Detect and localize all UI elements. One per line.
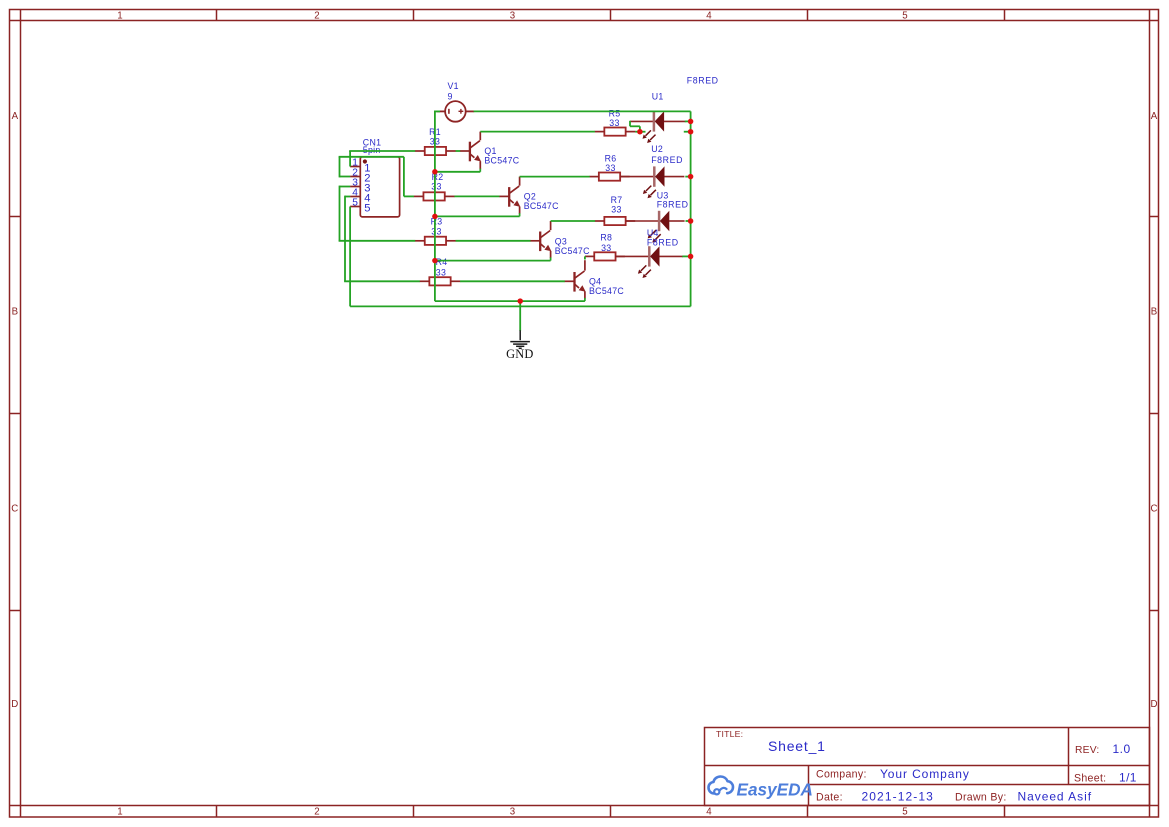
svg-text:D: D xyxy=(11,699,18,710)
svg-text:TITLE:: TITLE: xyxy=(716,729,743,739)
svg-text:R4: R4 xyxy=(436,257,448,267)
svg-text:Your Company: Your Company xyxy=(880,767,970,781)
svg-text:U2: U2 xyxy=(651,144,663,154)
svg-text:V1: V1 xyxy=(448,81,459,91)
svg-text:F8RED: F8RED xyxy=(657,199,689,209)
svg-text:5: 5 xyxy=(902,10,907,21)
svg-text:5: 5 xyxy=(364,202,370,214)
svg-text:Date:: Date: xyxy=(816,791,843,803)
svg-text:Naveed Asif: Naveed Asif xyxy=(1018,790,1093,804)
svg-text:Sheet:: Sheet: xyxy=(1074,772,1106,784)
svg-text:Sheet_1: Sheet_1 xyxy=(768,738,826,754)
svg-text:REV:: REV: xyxy=(1075,745,1099,756)
svg-text:4: 4 xyxy=(706,10,712,21)
svg-text:EasyEDA: EasyEDA xyxy=(737,780,813,800)
svg-text:BC547C: BC547C xyxy=(555,246,590,256)
svg-text:33: 33 xyxy=(605,163,615,173)
svg-text:D: D xyxy=(1151,699,1158,710)
svg-text:BC547C: BC547C xyxy=(484,155,519,165)
svg-text:C: C xyxy=(1151,503,1158,514)
svg-text:1: 1 xyxy=(117,806,122,817)
svg-text:5: 5 xyxy=(902,806,907,817)
svg-text:B: B xyxy=(12,306,18,317)
svg-text:2021-12-13: 2021-12-13 xyxy=(862,790,934,804)
svg-text:Q1: Q1 xyxy=(484,146,496,156)
svg-text:Q4: Q4 xyxy=(589,277,601,287)
svg-text:33: 33 xyxy=(431,182,441,192)
svg-text:5: 5 xyxy=(352,198,358,209)
svg-text:BC547C: BC547C xyxy=(589,286,624,296)
svg-text:R5: R5 xyxy=(609,108,621,118)
svg-text:GND: GND xyxy=(506,347,533,361)
svg-text:R8: R8 xyxy=(600,233,612,243)
svg-text:3: 3 xyxy=(510,806,515,817)
svg-text:A: A xyxy=(1151,111,1158,122)
svg-text:F8RED: F8RED xyxy=(651,155,683,165)
svg-text:9: 9 xyxy=(448,91,453,101)
svg-text:F8RED: F8RED xyxy=(647,237,679,247)
svg-text:B: B xyxy=(1151,306,1157,317)
svg-text:1: 1 xyxy=(117,10,122,21)
svg-text:A: A xyxy=(12,111,19,122)
svg-text:U1: U1 xyxy=(652,91,664,101)
svg-text:33: 33 xyxy=(611,205,621,215)
svg-text:Q2: Q2 xyxy=(524,191,536,201)
svg-text:3: 3 xyxy=(510,10,515,21)
svg-text:1/1: 1/1 xyxy=(1119,770,1137,784)
svg-text:C: C xyxy=(11,503,18,514)
svg-text:4: 4 xyxy=(706,806,712,817)
svg-text:Company:: Company: xyxy=(816,769,867,781)
svg-text:33: 33 xyxy=(436,267,446,277)
svg-text:BC547C: BC547C xyxy=(524,201,559,211)
svg-text:2: 2 xyxy=(314,10,319,21)
svg-text:Drawn By:: Drawn By: xyxy=(955,791,1007,803)
svg-text:33: 33 xyxy=(601,243,611,253)
svg-text:33: 33 xyxy=(431,227,441,237)
svg-text:F8RED: F8RED xyxy=(687,75,719,85)
svg-text:Q3: Q3 xyxy=(555,236,567,246)
svg-text:1.0: 1.0 xyxy=(1113,742,1131,756)
svg-text:33: 33 xyxy=(609,118,619,128)
svg-text:2: 2 xyxy=(314,806,319,817)
